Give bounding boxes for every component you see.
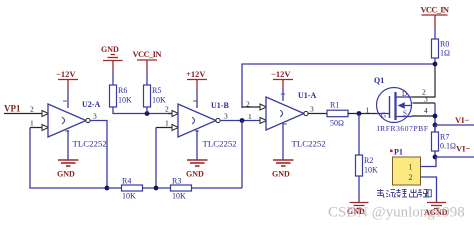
svg-text:VI−: VI− <box>456 144 470 154</box>
svg-text:2: 2 <box>30 105 34 114</box>
ground GND under U1-B <box>186 160 208 179</box>
svg-text:10K: 10K <box>172 192 186 201</box>
svg-text:GND: GND <box>57 170 75 179</box>
connector P1 <box>390 148 421 186</box>
wire U1-B pin1 loop to bottom rail <box>156 128 178 189</box>
svg-text:1: 1 <box>165 119 169 128</box>
label U1-A <box>298 91 316 100</box>
svg-text:2: 2 <box>165 105 169 114</box>
wire right column pins3-4 down <box>434 103 436 132</box>
svg-text:R7: R7 <box>440 133 449 142</box>
label IRFR3607PBF <box>377 124 428 133</box>
watermark CSDN @yunlong1998 <box>328 205 465 221</box>
junction dot at 435,125 <box>433 123 438 128</box>
ground GND under R2 <box>347 203 369 217</box>
svg-text:R6: R6 <box>118 86 127 95</box>
svg-text:10K: 10K <box>364 166 378 175</box>
svg-text:0.1Ω: 0.1Ω <box>440 142 456 151</box>
svg-text:P1: P1 <box>394 148 403 157</box>
pin 1 of U1-A (input arrow) <box>248 112 267 124</box>
resistor R7 <box>432 125 457 157</box>
resistor R1 <box>327 101 348 128</box>
svg-text:R1: R1 <box>330 101 339 110</box>
pin 2 of U1-B (input arrow) <box>165 105 179 117</box>
svg-text:3: 3 <box>310 105 314 114</box>
label U2-A <box>82 100 100 109</box>
wire U1-B output to U1-A pin1 <box>220 120 261 122</box>
resistor R2 <box>356 155 379 202</box>
wire P1 pin1 to R7 bottom <box>421 157 437 167</box>
node VI- lower wire and label <box>435 144 474 158</box>
pin 2 of U2-A (input arrow) <box>30 105 49 117</box>
junction dot at 435,64 <box>433 62 438 67</box>
svg-text:3: 3 <box>224 112 228 121</box>
wire top feedback loop <box>242 64 435 108</box>
svg-text:VI−: VI− <box>455 115 469 125</box>
op-amp U2-A triangle <box>48 101 86 137</box>
power VCC_IN (middle) <box>133 49 163 72</box>
svg-text:TLC2252: TLC2252 <box>73 139 107 149</box>
svg-text:Q1: Q1 <box>374 76 384 85</box>
svg-text:R4: R4 <box>122 177 131 186</box>
resistor R6 <box>110 85 133 107</box>
svg-text:GND: GND <box>186 170 204 179</box>
wire bottom rail segment right <box>192 187 243 189</box>
svg-text:VCC_IN: VCC_IN <box>421 5 450 15</box>
svg-text:10K: 10K <box>152 96 166 105</box>
wire U2-A pin1 feedback loop <box>30 128 107 189</box>
svg-text:3: 3 <box>424 95 428 104</box>
wire P1 pin2 to AGND <box>421 177 437 202</box>
svg-text:D: D <box>402 90 407 98</box>
svg-text:VP1: VP1 <box>4 104 21 114</box>
resistor R0 <box>432 39 451 58</box>
wire power stem bottom U1-B <box>196 130 198 160</box>
pin 1 of U2-A (input arrow) <box>30 119 49 131</box>
wire junction down to bottom rail <box>241 121 243 189</box>
svg-text:−12V: −12V <box>56 69 76 79</box>
wire VP1 to U2-A pin2 <box>4 113 42 115</box>
transistor Q1 gate bar <box>377 96 390 118</box>
label TLC2252 (U1-A) <box>292 139 326 149</box>
junction dot R5 bottom <box>145 111 150 116</box>
resistor R5 <box>144 85 167 114</box>
wire junction down to R2 <box>358 114 360 156</box>
svg-text:−12V: −12V <box>271 69 291 79</box>
power -12V (U2-A) <box>56 69 78 90</box>
wire R6 bottom to U1-B pin2 <box>113 107 173 114</box>
ground GND above R6 <box>101 45 123 72</box>
svg-text:U1-B: U1-B <box>211 101 229 110</box>
pin 2 of Q1 drain wire <box>412 64 435 97</box>
svg-text:R2: R2 <box>364 156 373 165</box>
svg-text:G: G <box>381 112 386 120</box>
junction dot at 435,157 <box>433 155 438 160</box>
transistor Q1 source stub with G S labels <box>381 110 412 120</box>
wire power stem top U1-B <box>196 90 198 108</box>
transistor Q1 body arrow stub <box>398 102 412 108</box>
pin 3 of U2-A output <box>86 112 97 123</box>
svg-text:TLC2252: TLC2252 <box>292 139 326 149</box>
wire bottom rail segment mid <box>143 187 171 189</box>
svg-text:TLC2252: TLC2252 <box>203 139 237 149</box>
svg-text:U2-A: U2-A <box>82 100 100 109</box>
pin 1 of Q1 gate label <box>366 106 370 115</box>
ground GND under U2-A <box>57 160 79 179</box>
wire U2-A output down to bottom rail <box>90 121 107 189</box>
svg-text:S: S <box>403 110 407 118</box>
power +12V (U1-B) <box>186 69 207 90</box>
svg-text:4: 4 <box>424 106 428 115</box>
transistor Q1 channel bar <box>394 92 396 120</box>
pin 3 of U1-A output <box>304 105 314 116</box>
ground GND under U1-A <box>272 160 294 179</box>
wire GND to R6 <box>112 72 114 85</box>
power -12V (U1-A) <box>271 69 293 88</box>
junction dot at 242,120.5 <box>240 118 245 123</box>
ground AGND <box>424 203 448 218</box>
pin 3 of U1-B output <box>216 112 228 123</box>
svg-text:1: 1 <box>366 106 370 115</box>
node VI- upper wire and label <box>435 115 474 125</box>
pin 4 of Q1 wire <box>412 106 436 116</box>
wire U1-A output to R1 <box>308 113 327 115</box>
pin 3 of Q1 wire <box>413 95 436 104</box>
power VCC_IN top right <box>421 5 450 28</box>
transistor Q1 drain stub with D label <box>396 90 412 98</box>
wire VCC_IN to R0 <box>434 27 436 39</box>
junction dot at 359,113.5 <box>357 111 362 116</box>
svg-text:3: 3 <box>93 112 97 121</box>
svg-text:GND: GND <box>101 45 119 54</box>
svg-text:1Ω: 1Ω <box>440 49 450 58</box>
wire R0 down to drain node <box>434 58 436 64</box>
svg-text:1: 1 <box>248 112 252 121</box>
junction dot at 435,116 <box>433 114 438 119</box>
svg-text:R5: R5 <box>152 86 161 95</box>
svg-text:R0: R0 <box>440 40 449 49</box>
junction dot at 157,188 <box>154 186 159 191</box>
svg-text:10K: 10K <box>118 96 132 105</box>
wire power stem top U2-A <box>67 90 69 108</box>
wire power stem bottom U1-A <box>282 123 284 160</box>
junction dot at output rail <box>105 186 110 191</box>
label TLC2252 (U1-B) <box>203 139 237 149</box>
wire bottom rail segment left <box>107 187 122 189</box>
pin 1 of U1-B (input arrow) <box>165 119 179 131</box>
transistor Q1 circle <box>374 76 412 123</box>
node VP1 net label <box>4 104 21 114</box>
wire power stem bottom U2-A <box>67 130 69 160</box>
wire VCC_IN to R5 <box>146 72 148 85</box>
svg-text:2: 2 <box>409 173 413 182</box>
resistor R3 <box>171 177 192 201</box>
svg-text:1: 1 <box>409 163 413 172</box>
svg-text:VCC_IN: VCC_IN <box>133 49 163 59</box>
label current output port (Chinese) <box>377 189 431 197</box>
svg-text:CSDN @yunlong1998: CSDN @yunlong1998 <box>328 205 465 221</box>
svg-text:1: 1 <box>30 119 34 128</box>
op-amp U1-B triangle <box>178 101 216 137</box>
svg-text:50Ω: 50Ω <box>330 119 344 128</box>
svg-text:R3: R3 <box>172 177 181 186</box>
svg-text:IRFR3607PBF: IRFR3607PBF <box>377 124 428 133</box>
label U1-B <box>211 101 229 110</box>
wire R1 to Q1 gate <box>348 113 377 115</box>
pin 2 of U1-A (input arrow) <box>242 100 267 111</box>
svg-text:GND: GND <box>272 170 290 179</box>
svg-text:10K: 10K <box>122 192 136 201</box>
label TLC2252 (U2-A) <box>73 139 107 149</box>
svg-text:U1-A: U1-A <box>298 91 316 100</box>
svg-text:+12V: +12V <box>186 69 206 79</box>
resistor R4 <box>122 177 143 201</box>
wire power stem top U1-A <box>282 88 284 101</box>
op-amp U1-A triangle <box>266 94 304 130</box>
